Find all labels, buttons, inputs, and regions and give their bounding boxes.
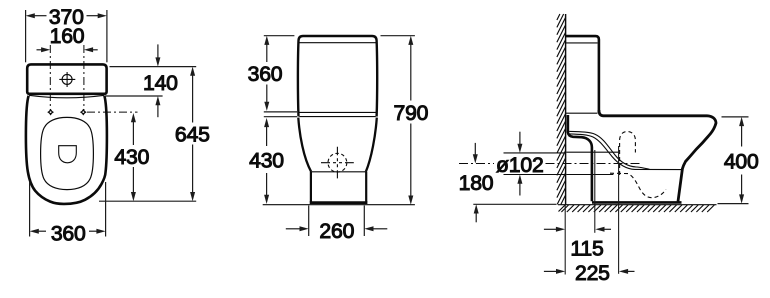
dimension 225 — [544, 269, 635, 274]
seat opening ellipse — [41, 117, 94, 189]
svg-text:115: 115 — [570, 237, 603, 260]
bowl taper left — [298, 118, 311, 172]
wall face ext line below floor — [564, 205, 566, 275]
floor line front view — [263, 204, 415, 206]
pipe axis dash-dot — [459, 163, 494, 165]
seat top and bowl front profile — [599, 110, 716, 202]
dimension 260 — [286, 206, 388, 237]
dimension 370 — [26, 10, 107, 62]
seat underside sweep (inner) — [569, 134, 681, 170]
pedestal bottom thick — [592, 201, 682, 204]
bowl outline (top view) — [26, 96, 107, 204]
centerline right (dash-dot) — [83, 45, 85, 112]
centerline left (dash-dot) — [49, 45, 51, 112]
pedestal top line — [312, 171, 366, 173]
dimension 790 — [381, 36, 415, 205]
svg-text:790: 790 — [394, 102, 429, 125]
front outline: tank — [298, 36, 377, 117]
wall line — [565, 14, 567, 205]
vertical ref line 225 — [618, 146, 620, 274]
svg-text:430: 430 — [249, 150, 284, 173]
pedestal bottom — [310, 201, 368, 204]
tank side: top + right edge — [566, 36, 599, 112]
dimension o102 — [517, 132, 522, 196]
tank lid line — [300, 42, 376, 44]
holes dash-dot line to right — [87, 111, 138, 113]
dimension 180 — [473, 143, 557, 222]
tank joint line upper — [299, 111, 375, 113]
pedestal sides — [310, 172, 312, 202]
dimension 430 (plan) — [131, 113, 136, 201]
tank lid line side — [566, 42, 598, 44]
seat underside sweep (outer) — [569, 131, 649, 169]
outlet pipe top line — [566, 151, 619, 153]
tank joint line side — [566, 112, 598, 114]
dimension 645 — [99, 67, 196, 202]
vertical ref line 115 — [594, 150, 596, 233]
flush button crosshair (tank) — [59, 72, 75, 87]
dimension 160 — [37, 47, 98, 52]
svg-text:645: 645 — [175, 123, 210, 146]
svg-text:160: 160 — [50, 25, 85, 48]
drain crosshair (dashed) — [321, 147, 354, 179]
dimension 430 (front) — [264, 118, 269, 204]
dimension 400 — [718, 117, 749, 204]
hidden trap loop (dashed) — [620, 131, 636, 175]
svg-text:260: 260 — [319, 220, 354, 243]
dimension 360 (plan bottom) — [30, 182, 106, 237]
fixing hole diamond left — [47, 109, 54, 116]
dimension 140 — [105, 44, 196, 117]
flush outlet D-shape — [59, 146, 77, 163]
floor line — [558, 204, 717, 206]
fixing hole diamond right — [80, 109, 87, 116]
floor hatching — [559, 205, 715, 212]
svg-text:360: 360 — [51, 222, 86, 245]
outlet pipe lines outside wall — [504, 152, 566, 154]
svg-text:430: 430 — [114, 146, 149, 169]
tank front lip curve — [29, 95, 104, 98]
svg-text:400: 400 — [724, 151, 759, 174]
svg-text:225: 225 — [575, 262, 610, 285]
outlet pipe bottom line — [566, 174, 613, 176]
bowl back step profile — [568, 115, 592, 201]
svg-text:360: 360 — [248, 63, 283, 86]
svg-text:ø102: ø102 — [496, 154, 544, 177]
dimension 360 (front) — [264, 36, 297, 117]
cistern tank (top view) — [27, 64, 106, 93]
hidden trap bottom curve (dashed) — [610, 173, 666, 198]
bowl taper right — [366, 118, 377, 172]
dimension 115 — [544, 227, 611, 232]
svg-text:180: 180 — [459, 172, 494, 195]
svg-text:140: 140 — [143, 72, 178, 95]
wall hatching — [557, 14, 566, 204]
tank joint line lower — [299, 116, 375, 118]
